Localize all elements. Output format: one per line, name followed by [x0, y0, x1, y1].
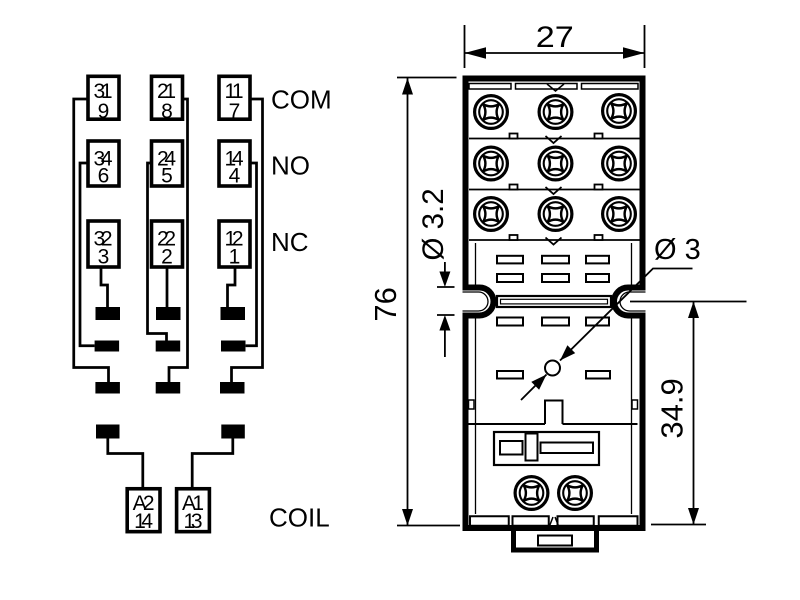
svg-text:14: 14	[134, 510, 153, 533]
svg-text:27: 27	[536, 21, 574, 54]
svg-text:2: 2	[161, 246, 173, 269]
svg-text:COIL: COIL	[269, 503, 330, 533]
svg-text:8: 8	[161, 100, 173, 123]
svg-text:NC: NC	[271, 227, 309, 257]
svg-text:9: 9	[98, 100, 110, 123]
svg-text:4: 4	[229, 165, 241, 188]
svg-text:COM: COM	[271, 85, 332, 115]
svg-text:34.9: 34.9	[655, 378, 690, 438]
svg-text:NO: NO	[271, 151, 310, 181]
svg-text:13: 13	[184, 510, 203, 533]
svg-text:7: 7	[229, 100, 241, 123]
svg-text:3: 3	[98, 246, 110, 269]
svg-text:Ø 3: Ø 3	[654, 234, 701, 266]
svg-text:76: 76	[368, 287, 403, 321]
svg-text:6: 6	[98, 165, 110, 188]
svg-text:5: 5	[161, 165, 173, 188]
svg-text:1: 1	[229, 246, 241, 269]
svg-text:Ø 3.2: Ø 3.2	[417, 188, 450, 260]
